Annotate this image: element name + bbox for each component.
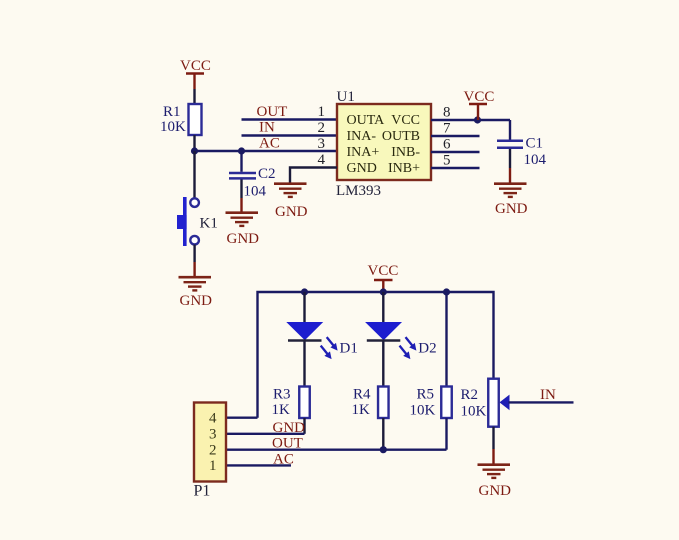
wire node B to C2 <box>240 151 242 172</box>
svg-text:INB+: INB+ <box>388 161 420 176</box>
svg-text:VCC: VCC <box>368 263 399 279</box>
svg-text:4: 4 <box>318 152 326 168</box>
power symbol VCC (bottom rail) <box>368 263 399 292</box>
power symbol VCC (top left) <box>180 58 211 89</box>
wire IC pin 4 to ground <box>290 168 337 183</box>
resistor R3 <box>299 387 310 419</box>
svg-text:GND: GND <box>495 201 528 217</box>
svg-text:OUT: OUT <box>272 436 303 452</box>
op-amp U1 body <box>337 104 431 180</box>
junction node C (pin8/VCC) <box>474 116 481 123</box>
wire IC pin 8 to VCC and C1 <box>431 119 510 121</box>
wire IN net to IC pin 2 <box>242 134 338 136</box>
wire IC pin 6 stub <box>431 151 480 153</box>
capacitor C2 <box>229 173 256 178</box>
svg-text:2: 2 <box>318 120 326 136</box>
svg-text:C2: C2 <box>258 166 276 182</box>
svg-text:GND: GND <box>273 420 306 436</box>
svg-text:R1: R1 <box>163 104 181 120</box>
svg-text:10K: 10K <box>160 119 186 135</box>
ground GND (below K1) <box>179 277 213 309</box>
junction OUT-R4 <box>380 446 387 453</box>
wire R2 wiper to IN <box>509 401 574 403</box>
ground GND (below C1) <box>494 184 528 217</box>
power symbol VCC (right) <box>464 89 495 120</box>
wire R2 to ground <box>492 427 494 464</box>
resistor R5 <box>441 387 452 419</box>
switch K1 <box>177 197 199 246</box>
resistor R4 <box>378 387 389 419</box>
wire D1 to R3 <box>303 342 305 387</box>
svg-text:OUTB: OUTB <box>382 129 420 144</box>
svg-text:OUT: OUT <box>257 104 288 120</box>
svg-text:VCC: VCC <box>180 58 211 74</box>
svg-text:GND: GND <box>275 204 308 220</box>
svg-text:2: 2 <box>209 443 217 459</box>
svg-text:P1: P1 <box>194 483 211 500</box>
wire R4 to OUT line <box>382 418 384 450</box>
wire R5 to OUT line <box>445 418 447 450</box>
svg-text:104: 104 <box>244 184 267 200</box>
LED D2 <box>366 323 416 360</box>
svg-text:1K: 1K <box>352 402 371 418</box>
svg-text:3: 3 <box>209 427 217 443</box>
svg-text:D1: D1 <box>340 341 358 357</box>
wire VCC rail <box>258 292 494 418</box>
wire OUT net to IC pin 1 <box>242 118 338 120</box>
svg-text:R2: R2 <box>461 387 479 403</box>
capacitor C1 <box>497 141 523 148</box>
svg-text:5: 5 <box>443 153 451 169</box>
svg-text:INB-: INB- <box>391 145 420 160</box>
svg-text:10K: 10K <box>410 403 436 419</box>
ground GND (below C2) <box>226 213 260 247</box>
junction rail-D1 <box>301 288 308 295</box>
wire C2 to ground <box>240 180 242 212</box>
svg-text:104: 104 <box>524 152 547 168</box>
svg-text:D2: D2 <box>418 341 436 357</box>
svg-text:GND: GND <box>347 161 377 176</box>
svg-text:VCC: VCC <box>391 113 420 128</box>
svg-text:1: 1 <box>209 458 217 474</box>
svg-text:4: 4 <box>209 411 217 427</box>
wire D2 to R4 <box>382 342 384 387</box>
wire IC pin 5 stub <box>431 167 480 169</box>
potentiometer R2 <box>488 379 509 427</box>
svg-text:7: 7 <box>443 121 451 137</box>
svg-text:R5: R5 <box>417 387 435 403</box>
junction node B (C2 tap) <box>238 147 245 154</box>
svg-text:3: 3 <box>318 136 326 152</box>
svg-text:IN: IN <box>259 120 275 136</box>
wire IC pin 7 stub <box>431 135 480 137</box>
svg-text:INA-: INA- <box>347 129 377 144</box>
wire rail to D2 <box>382 292 384 322</box>
svg-text:AC: AC <box>273 452 294 468</box>
svg-text:1K: 1K <box>272 402 291 418</box>
wire AC net to IC pin 3 <box>195 150 338 152</box>
junction rail-R5 <box>443 288 450 295</box>
wire AC net (P1 pin1) <box>226 464 291 466</box>
ground GND (below R2) <box>478 465 512 499</box>
svg-text:INA+: INA+ <box>347 145 380 160</box>
ground GND (IC pin 4) <box>274 184 308 220</box>
svg-text:U1: U1 <box>337 89 355 105</box>
svg-text:GND: GND <box>180 293 213 309</box>
wire OUT net (P1 pin2) <box>226 449 447 451</box>
connector P1 body <box>194 403 226 482</box>
svg-text:VCC: VCC <box>464 89 495 105</box>
junction rail-VCC <box>380 288 387 295</box>
wire rail to R5 <box>445 292 447 387</box>
svg-text:LM393: LM393 <box>336 183 381 199</box>
junction node A <box>191 147 198 154</box>
wire rail to D1 <box>303 292 305 322</box>
wire GND net (P1 pin3) <box>226 433 305 435</box>
wire R3 to GND line <box>303 418 305 434</box>
wire R1 to node A <box>193 135 195 151</box>
wire P1 pin4 to rail drop <box>226 417 258 419</box>
svg-text:10K: 10K <box>461 404 487 420</box>
svg-text:AC: AC <box>259 136 280 152</box>
wire node A to switch K1 <box>193 151 195 199</box>
svg-text:R4: R4 <box>353 387 371 403</box>
wire VCC to R1 <box>193 89 195 104</box>
wire K1 to ground <box>193 245 195 277</box>
wire C1 to ground <box>509 149 511 183</box>
wire down to C1 <box>509 120 511 140</box>
svg-text:1: 1 <box>318 104 326 120</box>
resistor R1 <box>189 104 202 135</box>
svg-text:K1: K1 <box>200 216 218 232</box>
svg-text:OUTA: OUTA <box>347 113 386 128</box>
svg-text:GND: GND <box>479 483 512 499</box>
svg-text:R3: R3 <box>273 387 291 403</box>
svg-text:8: 8 <box>443 105 451 121</box>
svg-text:IN: IN <box>540 387 556 403</box>
svg-text:GND: GND <box>227 231 260 247</box>
svg-text:C1: C1 <box>526 136 544 152</box>
LED D1 <box>288 323 338 360</box>
svg-text:6: 6 <box>443 137 451 153</box>
